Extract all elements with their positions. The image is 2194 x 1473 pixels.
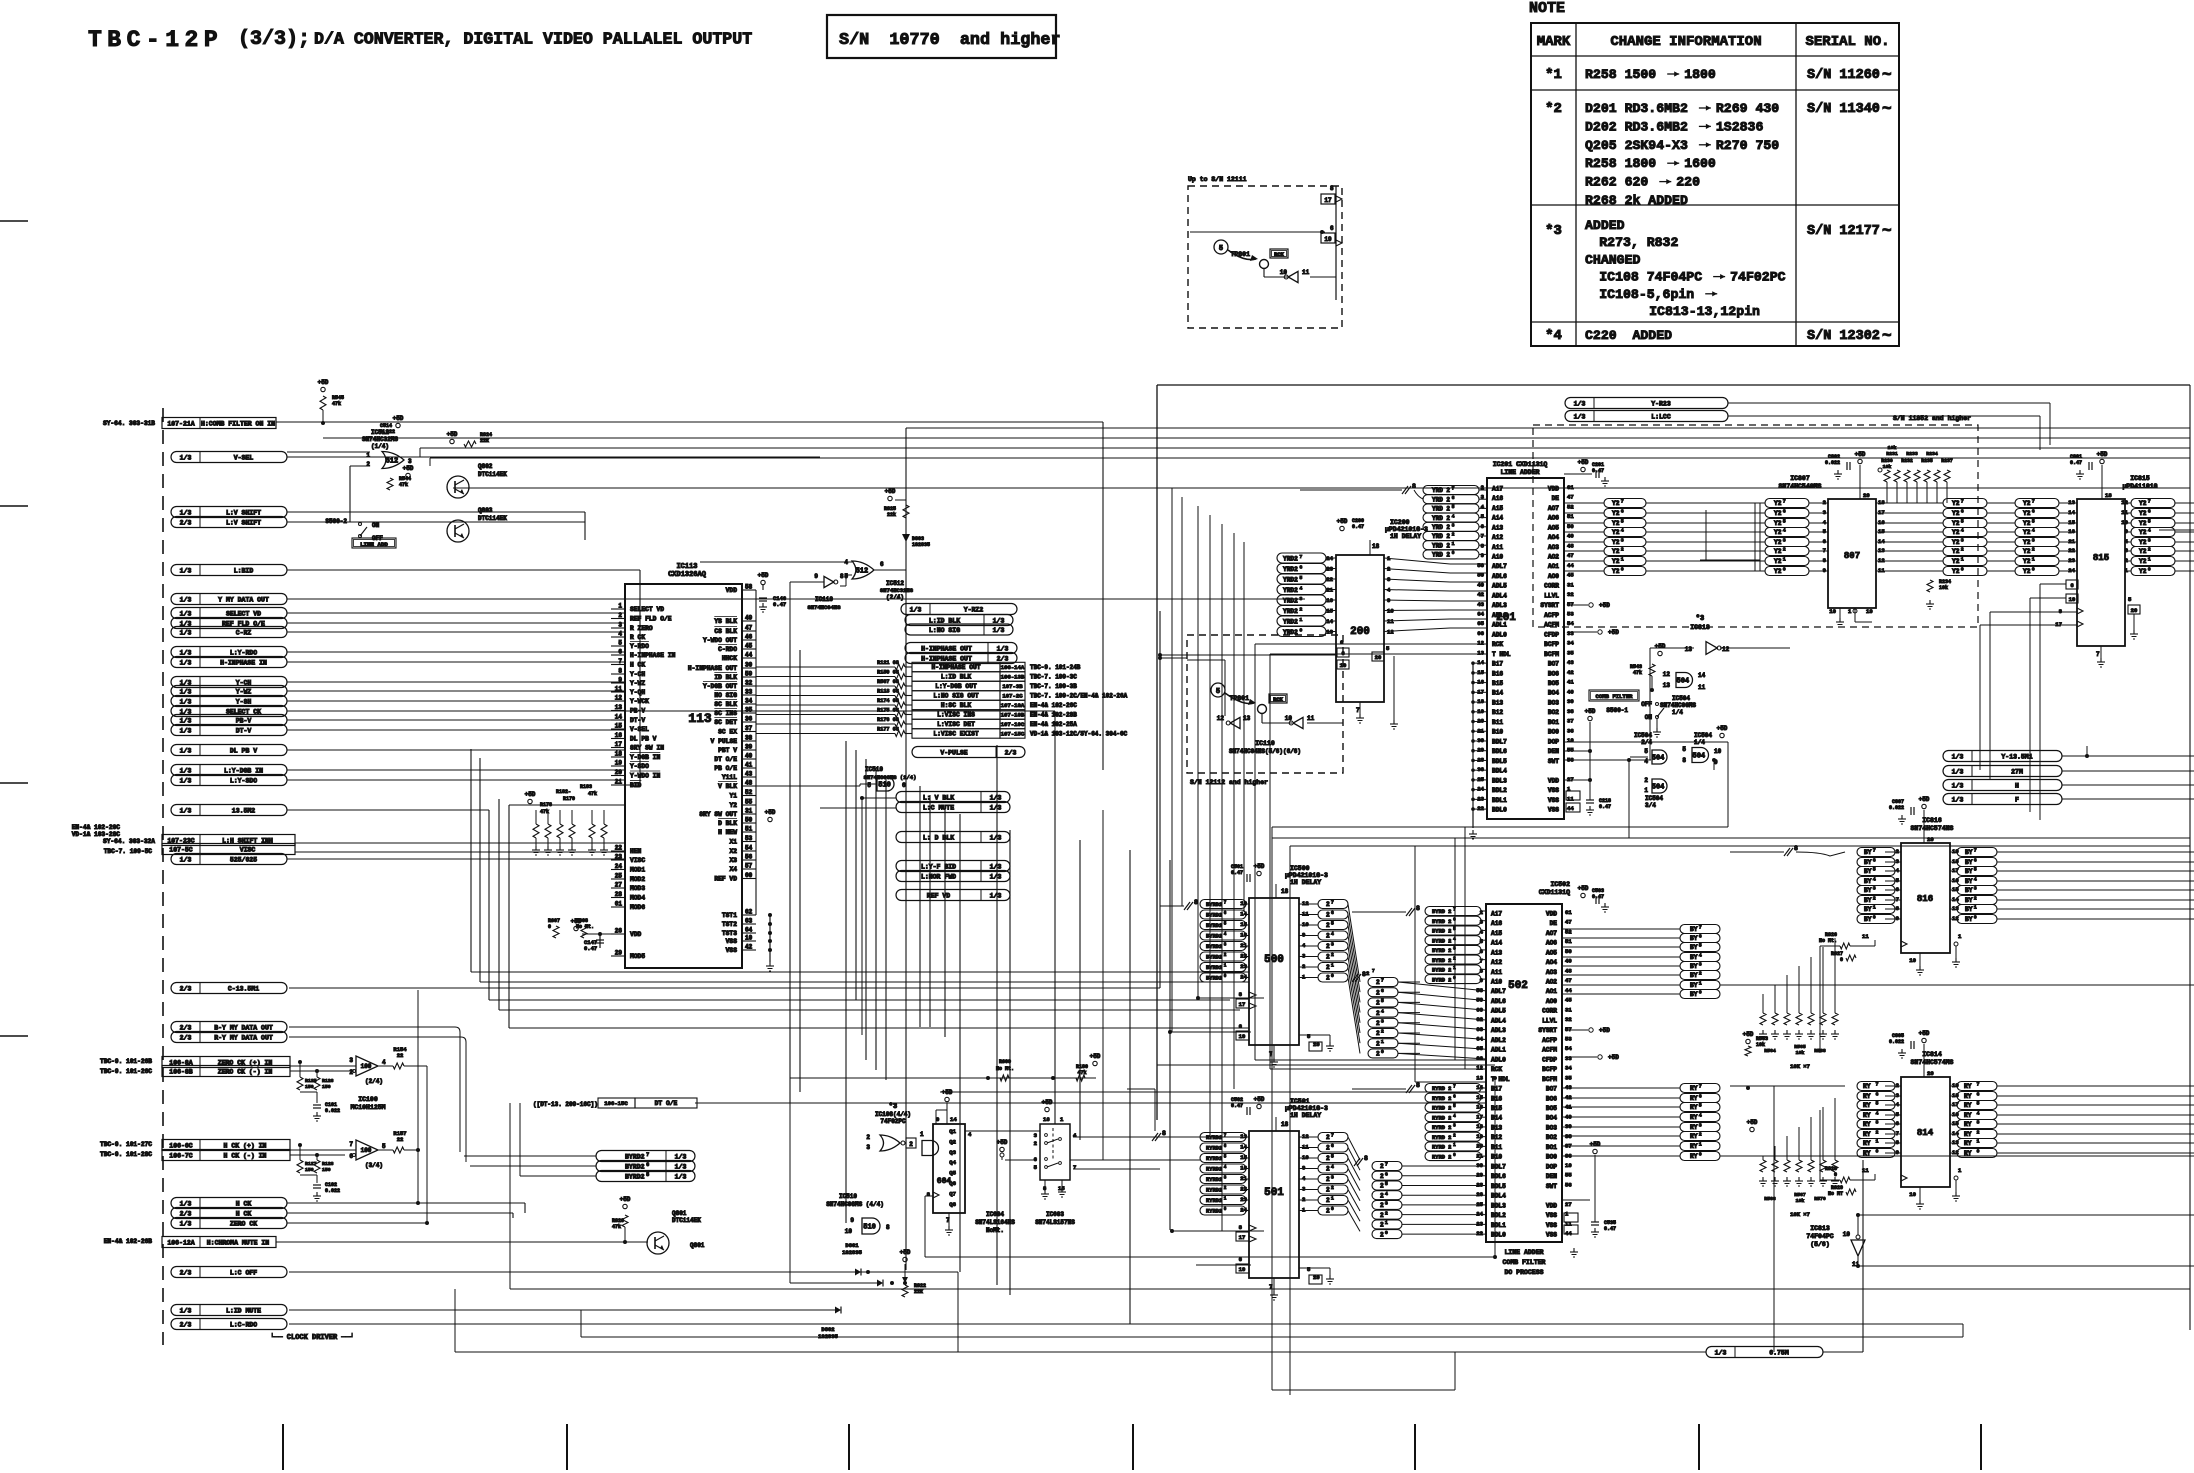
svg-text:VDD: VDD xyxy=(1546,910,1557,917)
svg-text:MOD2: MOD2 xyxy=(630,876,645,883)
svg-text:3: 3 xyxy=(1621,538,1624,544)
svg-text:10k: 10k xyxy=(1756,1042,1765,1048)
svg-text:BDL3: BDL3 xyxy=(1491,1202,1506,1209)
svg-text:10: 10 xyxy=(745,935,753,942)
svg-text:YRD 2: YRD 2 xyxy=(1432,496,1450,503)
svg-text:512: 512 xyxy=(386,458,399,466)
svg-text:PBT V: PBT V xyxy=(718,747,737,754)
svg-text:YRD 2: YRD 2 xyxy=(1432,515,1450,522)
svg-text:TBC-9. 101-28C: TBC-9. 101-28C xyxy=(100,1151,152,1158)
svg-text:47k: 47k xyxy=(540,809,549,815)
svg-text:1: 1 xyxy=(1977,1139,1980,1145)
svg-text:4: 4 xyxy=(1224,1165,1227,1170)
svg-text:5: 5 xyxy=(1331,1154,1334,1160)
svg-text:4: 4 xyxy=(1644,758,1648,765)
svg-text:7: 7 xyxy=(1699,925,1702,931)
svg-text:T HDL: T HDL xyxy=(1492,651,1511,658)
svg-text:V-PULSE: V-PULSE xyxy=(940,749,967,756)
svg-text:2: 2 xyxy=(1326,922,1330,929)
svg-text:SY-64. 303-31B: SY-64. 303-31B xyxy=(103,420,155,427)
svg-text:1H DELAY: 1H DELAY xyxy=(1390,533,1421,540)
svg-text:Y2: Y2 xyxy=(1952,539,1960,546)
svg-text:AO1: AO1 xyxy=(1546,988,1557,995)
svg-text:11: 11 xyxy=(1862,933,1869,940)
svg-text:Q205 2SK94-X3: Q205 2SK94-X3 xyxy=(1585,138,1696,153)
svg-text:C220 ADDED: C220 ADDED xyxy=(1585,328,1672,343)
svg-text:1/3: 1/3 xyxy=(180,1220,192,1227)
svg-text:27: 27 xyxy=(1565,1201,1572,1208)
svg-text:18: 18 xyxy=(1281,1121,1289,1128)
svg-text:5: 5 xyxy=(1977,1101,1980,1107)
svg-text:3: 3 xyxy=(2148,538,2151,544)
svg-text:54: 54 xyxy=(745,845,753,852)
svg-text:2: 2 xyxy=(1326,901,1330,908)
svg-text:106-13B: 106-13B xyxy=(1001,674,1025,681)
svg-text:28: 28 xyxy=(615,891,623,898)
svg-text:ON: ON xyxy=(1645,714,1653,721)
svg-text:19: 19 xyxy=(1239,1033,1246,1040)
svg-text:Y-WDO IN: Y-WDO IN xyxy=(630,773,660,780)
svg-text:R174 68: R174 68 xyxy=(877,698,899,704)
svg-text:4: 4 xyxy=(1224,932,1227,937)
svg-text:DL PB V: DL PB V xyxy=(630,736,657,743)
svg-text:(1/4): (1/4) xyxy=(371,443,389,450)
svg-text:Y2: Y2 xyxy=(2023,539,2031,546)
svg-text:5: 5 xyxy=(2032,519,2035,525)
svg-text:5: 5 xyxy=(1385,1181,1388,1187)
svg-text:VSS: VSS xyxy=(1546,1222,1557,1229)
svg-text:1H DELAY: 1H DELAY xyxy=(1290,1112,1321,1119)
svg-text:AO4: AO4 xyxy=(1546,959,1557,966)
svg-text:2: 2 xyxy=(1380,1202,1384,1209)
svg-text:DEN: DEN xyxy=(1548,748,1559,755)
svg-text:X2: X2 xyxy=(729,848,737,855)
svg-text:19: 19 xyxy=(1340,662,1347,669)
svg-text:24: 24 xyxy=(1476,1211,1483,1218)
svg-text:12: 12 xyxy=(1722,646,1730,653)
svg-text:2: 2 xyxy=(1326,912,1330,919)
svg-text:+5D: +5D xyxy=(525,791,536,798)
svg-text:BDL0: BDL0 xyxy=(1492,806,1507,813)
svg-text:Y2: Y2 xyxy=(2139,500,2147,507)
svg-text:RYRD2: RYRD2 xyxy=(1206,1146,1222,1152)
svg-text:8: 8 xyxy=(1682,757,1686,764)
svg-text:VD-1& 103-28C: VD-1& 103-28C xyxy=(72,831,121,838)
svg-text:DTC114EK: DTC114EK xyxy=(672,1217,701,1224)
svg-text:X1: X1 xyxy=(729,839,737,846)
svg-text:10k: 10k xyxy=(1796,1050,1805,1056)
svg-text:2: 2 xyxy=(1644,777,1648,784)
svg-text:2: 2 xyxy=(1380,1212,1384,1219)
svg-text:6.75M: 6.75M xyxy=(1769,1349,1789,1356)
svg-text:31: 31 xyxy=(1565,1006,1572,1013)
svg-text:5: 5 xyxy=(1453,1104,1456,1109)
svg-text:10: 10 xyxy=(1829,608,1836,615)
svg-text:4: 4 xyxy=(1385,1191,1388,1197)
svg-text:IC110: IC110 xyxy=(1255,740,1275,747)
svg-text:Y2: Y2 xyxy=(1774,548,1782,555)
svg-text:18: 18 xyxy=(1281,888,1289,895)
svg-text:4: 4 xyxy=(1699,953,1702,959)
svg-text:1: 1 xyxy=(1452,541,1455,547)
svg-text:2: 2 xyxy=(1453,1133,1456,1138)
svg-text:14: 14 xyxy=(1698,672,1706,679)
svg-text:2: 2 xyxy=(366,461,370,468)
svg-text:11: 11 xyxy=(1862,1167,1869,1174)
svg-text:107-10B: 107-10B xyxy=(1001,712,1025,719)
svg-text:BO4: BO4 xyxy=(1548,690,1559,697)
svg-text:2: 2 xyxy=(1974,896,1977,902)
svg-text:45: 45 xyxy=(1565,997,1572,1004)
svg-text:74F04PC: 74F04PC xyxy=(1806,1233,1833,1240)
svg-text:52: 52 xyxy=(1567,503,1574,510)
svg-text:8: 8 xyxy=(1416,905,1420,912)
svg-text:50: 50 xyxy=(745,817,753,824)
svg-text:10k: 10k xyxy=(1883,464,1892,470)
svg-text:37: 37 xyxy=(1567,718,1574,725)
svg-text:107-10A: 107-10A xyxy=(1001,702,1025,709)
svg-text:D802: D802 xyxy=(821,1326,834,1333)
svg-text:510: 510 xyxy=(878,782,891,790)
svg-text:10: 10 xyxy=(1565,1162,1572,1169)
svg-text:+5D: +5D xyxy=(1578,885,1589,892)
svg-text:H-INPHASE OUT: H-INPHASE OUT xyxy=(921,645,972,652)
svg-text:BDL3: BDL3 xyxy=(1492,777,1507,784)
svg-text:Y2: Y2 xyxy=(729,802,737,809)
svg-text:49: 49 xyxy=(1567,533,1574,540)
svg-text:74F02PC: 74F02PC xyxy=(1730,270,1785,285)
svg-text:0.47: 0.47 xyxy=(773,601,786,608)
svg-text:R ZERO: R ZERO xyxy=(630,625,653,632)
svg-text:REF FLD O/E: REF FLD O/E xyxy=(630,616,672,623)
svg-text:100: 100 xyxy=(361,1063,372,1070)
svg-text:30: 30 xyxy=(745,662,753,669)
svg-text:RY: RY xyxy=(1863,1131,1874,1138)
svg-text:R235: R235 xyxy=(1921,458,1933,464)
svg-text:Y2: Y2 xyxy=(1774,568,1782,575)
svg-text:7: 7 xyxy=(1621,499,1624,505)
svg-text:35: 35 xyxy=(1565,1074,1572,1081)
svg-text:7: 7 xyxy=(1452,486,1455,492)
svg-text:512: 512 xyxy=(856,568,869,576)
svg-text:LINE ADD: LINE ADD xyxy=(360,541,388,548)
svg-text:(3/3);: (3/3); xyxy=(238,28,310,51)
svg-text:H-INPHASE OUT: H-INPHASE OUT xyxy=(688,665,737,672)
svg-text:S/N 12112 and higher: S/N 12112 and higher xyxy=(1190,779,1268,786)
svg-text:L:C-RDO: L:C-RDO xyxy=(230,1321,257,1328)
svg-text:BY: BY xyxy=(1864,878,1872,885)
svg-text:2: 2 xyxy=(1699,971,1702,977)
svg-text:30: 30 xyxy=(1476,1162,1483,1169)
svg-text:20: 20 xyxy=(1863,492,1870,499)
svg-text:8: 8 xyxy=(1416,1082,1420,1089)
svg-text:13: 13 xyxy=(615,704,623,711)
svg-text:H-INPHASE IN: H-INPHASE IN xyxy=(630,652,676,659)
svg-text:5: 5 xyxy=(1224,1155,1227,1160)
svg-text:44: 44 xyxy=(1565,987,1572,994)
svg-text:DL PB V: DL PB V xyxy=(230,747,257,754)
svg-text:BO7: BO7 xyxy=(1548,661,1559,668)
svg-text:RY: RY xyxy=(1964,1093,1975,1100)
svg-text:R177 68: R177 68 xyxy=(877,726,899,732)
svg-text:7: 7 xyxy=(1299,554,1302,560)
svg-text:A16: A16 xyxy=(1492,495,1503,502)
svg-text:BDL5: BDL5 xyxy=(1491,1183,1506,1190)
svg-text:107-2C: 107-2C xyxy=(1002,693,1023,700)
svg-text:5: 5 xyxy=(618,640,622,647)
svg-text:Q4: Q4 xyxy=(949,1159,956,1166)
svg-text:19: 19 xyxy=(2069,596,2076,603)
svg-text:BY: BY xyxy=(1864,916,1872,923)
svg-text:0: 0 xyxy=(1224,1207,1227,1212)
svg-text:BY: BY xyxy=(1864,849,1872,856)
svg-text:107-10C: 107-10C xyxy=(1001,721,1025,728)
svg-text:13.5M2: 13.5M2 xyxy=(232,807,256,814)
svg-text:3: 3 xyxy=(1452,523,1455,529)
svg-text:ADL5: ADL5 xyxy=(1491,1008,1506,1015)
svg-text:RY: RY xyxy=(1690,1085,1698,1092)
svg-text:ADL6: ADL6 xyxy=(1492,573,1507,580)
svg-text:IC108(4/4): IC108(4/4) xyxy=(875,1111,911,1118)
svg-text:L:VISC INS: L:VISC INS xyxy=(937,712,975,719)
svg-text:+5D: +5D xyxy=(1599,602,1610,609)
svg-text:BY: BY xyxy=(1864,906,1872,913)
svg-text:Y2: Y2 xyxy=(2139,529,2147,536)
svg-text:2: 2 xyxy=(1224,953,1227,958)
svg-text:└── CLOCK DRIVER ──┘: └── CLOCK DRIVER ──┘ xyxy=(270,1333,354,1342)
svg-text:IC813: IC813 xyxy=(1810,1225,1830,1232)
svg-text:22k: 22k xyxy=(887,512,896,518)
svg-text:51: 51 xyxy=(1565,938,1572,945)
svg-text:106-15C: 106-15C xyxy=(604,1100,628,1107)
svg-text:10K ×7: 10K ×7 xyxy=(1790,1063,1810,1070)
svg-text:6: 6 xyxy=(1783,509,1786,515)
svg-text:R175 68: R175 68 xyxy=(877,707,899,713)
svg-text:IC113: IC113 xyxy=(676,563,697,571)
svg-text:Y2: Y2 xyxy=(2139,558,2147,565)
svg-text:10: 10 xyxy=(1909,957,1916,964)
svg-text:2: 2 xyxy=(2148,547,2151,553)
svg-text:14: 14 xyxy=(950,1116,957,1123)
svg-text:R269 430: R269 430 xyxy=(1716,101,1779,116)
svg-text:BDL5: BDL5 xyxy=(1492,758,1507,765)
svg-text:BY: BY xyxy=(1864,868,1872,875)
svg-text:6: 6 xyxy=(1224,1144,1227,1149)
svg-text:54: 54 xyxy=(1567,620,1574,627)
svg-text:BDL0: BDL0 xyxy=(1491,1231,1506,1238)
svg-text:0.47: 0.47 xyxy=(1592,468,1604,474)
svg-text:AO7: AO7 xyxy=(1546,930,1557,937)
svg-text:ZERO CK: ZERO CK xyxy=(230,1220,257,1227)
svg-text:ID BLK: ID BLK xyxy=(714,674,737,681)
svg-text:2/3: 2/3 xyxy=(180,985,192,992)
svg-text:4: 4 xyxy=(1621,528,1624,534)
svg-text:IC500: IC500 xyxy=(1290,865,1310,872)
svg-text:RY: RY xyxy=(1690,1095,1698,1102)
svg-text:RYRD 2: RYRD 2 xyxy=(1432,1145,1451,1151)
svg-text:PB-V: PB-V xyxy=(236,717,252,724)
svg-text:44: 44 xyxy=(1567,562,1574,569)
svg-text:TBC-9. 101-24B: TBC-9. 101-24B xyxy=(1030,664,1081,671)
svg-text:5: 5 xyxy=(1873,867,1876,873)
svg-text:AO1: AO1 xyxy=(1548,563,1559,570)
svg-text:L:NO SIG OUT: L:NO SIG OUT xyxy=(933,693,979,700)
svg-text:1/3: 1/3 xyxy=(180,777,192,784)
svg-text:RCK: RCK xyxy=(1274,252,1284,258)
svg-text:SWT: SWT xyxy=(1548,758,1559,765)
svg-text:DOP: DOP xyxy=(1548,738,1559,745)
svg-text:11: 11 xyxy=(1387,618,1394,625)
svg-text:Y2: Y2 xyxy=(1612,500,1620,507)
svg-text:6: 6 xyxy=(1331,910,1334,916)
svg-text:RY: RY xyxy=(1964,1102,1975,1109)
svg-text:L:Y-RDO: L:Y-RDO xyxy=(230,649,257,656)
svg-text:SC BLK: SC BLK xyxy=(714,701,737,708)
svg-text:1: 1 xyxy=(1385,1220,1388,1226)
svg-text:TBC-7. 109-5C: TBC-7. 109-5C xyxy=(104,848,153,855)
svg-text:YRD2: YRD2 xyxy=(1283,566,1298,573)
svg-text:L:Y-SDO: L:Y-SDO xyxy=(230,777,257,784)
svg-text:BO6: BO6 xyxy=(1548,670,1559,677)
svg-text:IC502: IC502 xyxy=(1550,881,1570,888)
svg-text:11: 11 xyxy=(1567,795,1574,802)
svg-text:200: 200 xyxy=(1350,626,1370,638)
svg-text:RYRD2: RYRD2 xyxy=(1206,1156,1222,1162)
svg-text:BY: BY xyxy=(1690,963,1698,970)
svg-text:38: 38 xyxy=(1567,708,1574,715)
svg-text:RY: RY xyxy=(1964,1121,1975,1128)
svg-text:AO0: AO0 xyxy=(1548,573,1559,580)
svg-text:+5D: +5D xyxy=(885,488,896,495)
svg-text:S/N 12177: S/N 12177 xyxy=(1807,224,1880,239)
svg-text:AO3: AO3 xyxy=(1546,969,1557,976)
svg-text:RY: RY xyxy=(1690,1124,1698,1131)
svg-text:(2/4): (2/4) xyxy=(365,1078,383,1085)
svg-text:0: 0 xyxy=(1385,1230,1388,1236)
svg-text:32: 32 xyxy=(1567,591,1574,598)
svg-text:5: 5 xyxy=(1783,519,1786,525)
svg-text:504: 504 xyxy=(1677,678,1690,686)
svg-text:EN-4& 102-25A: EN-4& 102-25A xyxy=(1030,721,1077,728)
svg-text:33: 33 xyxy=(745,689,753,696)
svg-text:VISC: VISC xyxy=(240,846,256,853)
svg-text:17: 17 xyxy=(1239,1234,1246,1241)
svg-text:BY: BY xyxy=(1864,887,1872,894)
svg-text:2: 2 xyxy=(1326,1134,1330,1141)
svg-text:R CK: R CK xyxy=(630,634,645,641)
svg-text:29: 29 xyxy=(1476,1172,1483,1179)
svg-text:5: 5 xyxy=(382,1143,386,1150)
svg-text:13: 13 xyxy=(1685,646,1693,653)
svg-text:+5D: +5D xyxy=(1747,1119,1758,1126)
svg-text:H CK: H CK xyxy=(236,1210,252,1217)
svg-text:Y-RZ2: Y-RZ2 xyxy=(964,606,984,613)
svg-text:B13: B13 xyxy=(1492,699,1503,706)
svg-text:1/3: 1/3 xyxy=(180,629,192,636)
svg-text:13: 13 xyxy=(1477,649,1484,656)
svg-text:BO6: BO6 xyxy=(1546,1095,1557,1102)
svg-text:22: 22 xyxy=(1476,1230,1483,1237)
svg-text:1/3: 1/3 xyxy=(910,606,922,613)
svg-text:0: 0 xyxy=(1331,1206,1334,1212)
svg-text:29: 29 xyxy=(615,950,623,957)
svg-text:0.47: 0.47 xyxy=(1599,804,1611,810)
svg-text:NO SIG: NO SIG xyxy=(714,692,737,699)
svg-text:R262 620: R262 620 xyxy=(1585,175,1656,190)
svg-text:11: 11 xyxy=(1565,1220,1572,1227)
svg-text:33: 33 xyxy=(1567,630,1574,637)
svg-text:61: 61 xyxy=(1565,909,1572,916)
svg-text:50: 50 xyxy=(1565,948,1572,955)
svg-text:Y2: Y2 xyxy=(1952,548,1960,555)
svg-text:51: 51 xyxy=(745,826,753,833)
svg-text:BY: BY xyxy=(1965,887,1973,894)
svg-text:BO2: BO2 xyxy=(1546,1134,1557,1141)
svg-text:13: 13 xyxy=(1476,1074,1483,1081)
svg-text:13: 13 xyxy=(1663,682,1671,689)
svg-text:No Mt.: No Mt. xyxy=(1819,938,1837,944)
svg-text:MOD5: MOD5 xyxy=(630,953,645,960)
svg-text:BYRD2: BYRD2 xyxy=(1206,965,1222,971)
svg-text:DT-V: DT-V xyxy=(630,717,645,724)
svg-text:BYRD2: BYRD2 xyxy=(625,1174,645,1181)
svg-text:A12: A12 xyxy=(1491,959,1502,966)
svg-text:0: 0 xyxy=(1452,550,1455,556)
svg-text:22: 22 xyxy=(397,1052,404,1059)
svg-text:SN74HC574MS: SN74HC574MS xyxy=(1911,1059,1954,1066)
svg-text:23: 23 xyxy=(1476,1220,1483,1227)
svg-text:SYSRT: SYSRT xyxy=(1538,1027,1557,1034)
svg-text:Y2: Y2 xyxy=(1612,568,1620,575)
svg-text:R127: R127 xyxy=(305,1161,317,1167)
svg-text:1: 1 xyxy=(1381,1039,1384,1045)
svg-text:+5D: +5D xyxy=(1578,459,1589,466)
svg-text:1/3: 1/3 xyxy=(1952,796,1964,803)
svg-text:61: 61 xyxy=(615,901,623,908)
svg-text:4: 4 xyxy=(2148,528,2151,534)
svg-text:150: 150 xyxy=(322,1167,331,1173)
svg-text:5: 5 xyxy=(1699,943,1702,949)
svg-text:H-INPHASE OUT: H-INPHASE OUT xyxy=(921,655,972,662)
svg-text:Y-13.5M1: Y-13.5M1 xyxy=(2001,753,2032,760)
svg-text:S/N 10770 and higher: S/N 10770 and higher xyxy=(839,31,1061,50)
svg-text:2: 2 xyxy=(1380,1183,1384,1190)
svg-text:+5D: +5D xyxy=(1743,1031,1754,1038)
svg-text:C-13.5M1: C-13.5M1 xyxy=(228,985,259,992)
svg-text:Y2: Y2 xyxy=(1774,500,1782,507)
svg-text:L:ID BLK: L:ID BLK xyxy=(941,674,971,681)
svg-text:7: 7 xyxy=(1356,707,1360,714)
svg-text:5: 5 xyxy=(1452,504,1455,510)
svg-text:47k: 47k xyxy=(612,1224,621,1230)
svg-text:0.47: 0.47 xyxy=(1592,894,1604,900)
svg-text:L:C MUTE: L:C MUTE xyxy=(923,804,954,811)
svg-text:ADDED: ADDED xyxy=(1585,218,1625,233)
svg-text:47: 47 xyxy=(1567,494,1574,501)
svg-text:501: 501 xyxy=(1264,1187,1284,1199)
svg-text:BDL2: BDL2 xyxy=(1491,1212,1506,1219)
svg-text:3: 3 xyxy=(1873,886,1876,892)
svg-text:B-Y MY DATA OUT: B-Y MY DATA OUT xyxy=(214,1024,273,1031)
svg-text:7: 7 xyxy=(1224,901,1227,906)
svg-text:SN74HC04NS(5/6)(6/6): SN74HC04NS(5/6)(6/6) xyxy=(1229,748,1301,755)
svg-text:2/3: 2/3 xyxy=(180,1024,192,1031)
svg-text:Y-WZ: Y-WZ xyxy=(630,680,645,687)
svg-text:A16: A16 xyxy=(1491,920,1502,927)
svg-text:S/N 11340: S/N 11340 xyxy=(1807,102,1880,117)
svg-text:8: 8 xyxy=(1412,483,1416,490)
svg-text:150: 150 xyxy=(322,1084,331,1090)
